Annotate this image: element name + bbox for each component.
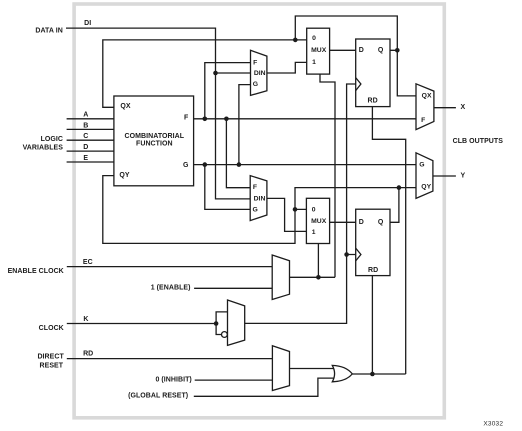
- flip-flop FF2 (QY): [356, 209, 390, 275]
- svg-text:Y: Y: [461, 173, 466, 180]
- svg-text:DATA IN: DATA IN: [35, 27, 62, 34]
- svg-text:QX: QX: [422, 93, 432, 100]
- mux M5 (reset): [272, 346, 289, 391]
- svg-text:D: D: [83, 144, 88, 151]
- svg-text:A: A: [83, 112, 88, 119]
- junction K tap: [214, 321, 219, 326]
- svg-text:MUX: MUX: [311, 218, 327, 225]
- svg-text:ENABLE CLOCK: ENABLE CLOCK: [8, 268, 64, 275]
- svg-text:D: D: [359, 219, 364, 226]
- wire DI net: [66, 28, 250, 199]
- wire (GLOBAL RESET) input: [194, 378, 335, 396]
- svg-text:B: B: [83, 122, 88, 129]
- svg-text:G: G: [183, 162, 189, 169]
- svg-text:E: E: [83, 155, 88, 162]
- junction F to lower mux: [224, 117, 229, 122]
- svg-text:1: 1: [312, 59, 316, 66]
- wire lower data mux output to MUX 1 input: [267, 198, 307, 231]
- junction G to lower mux: [203, 162, 208, 167]
- svg-text:X: X: [461, 104, 466, 111]
- svg-text:DIN: DIN: [254, 70, 266, 77]
- wire EC input: [67, 266, 272, 268]
- mux M2 (F/DIN/G lower): [250, 176, 267, 221]
- svg-text:RESET: RESET: [40, 363, 64, 370]
- junction QY recirculate: [293, 207, 298, 212]
- wire enable-clock select net: [290, 74, 336, 277]
- svg-text:QX: QX: [120, 103, 130, 110]
- svg-text:DI: DI: [84, 20, 91, 27]
- wire clock net: [245, 84, 356, 323]
- wire QX feedback loop: [103, 16, 416, 107]
- svg-text:G: G: [419, 162, 424, 169]
- wire RD input: [67, 358, 273, 360]
- svg-text:FUNCTION: FUNCTION: [136, 140, 173, 147]
- inverter bubble on clock mux: [222, 332, 228, 338]
- wire G net: [194, 85, 416, 210]
- mux M4 (clock polarity): [228, 300, 245, 345]
- wire A input: [67, 118, 114, 120]
- wire QY feedback net: [103, 176, 416, 244]
- wire 0 (INHIBIT) input: [195, 379, 273, 381]
- junction QX recirculate: [293, 38, 298, 43]
- svg-text:0: 0: [312, 206, 316, 213]
- svg-text:K: K: [83, 316, 88, 323]
- combinatorial function block: [114, 96, 194, 186]
- junction QY output: [397, 185, 402, 190]
- wire D input: [67, 150, 114, 152]
- wire C input: [67, 139, 114, 141]
- svg-text:0 (INHIBIT): 0 (INHIBIT): [155, 377, 191, 384]
- junction clock to FF2: [344, 252, 349, 257]
- svg-text:QY: QY: [421, 184, 431, 191]
- wire E input: [67, 161, 114, 163]
- junction DI/DIN upper: [213, 71, 218, 76]
- wire upper MUX output to D: [330, 49, 356, 51]
- svg-text:CLB OUTPUTS: CLB OUTPUTS: [453, 138, 504, 145]
- svg-text:X3032: X3032: [483, 421, 503, 428]
- svg-text:C: C: [83, 133, 88, 140]
- svg-text:MUX: MUX: [311, 47, 327, 54]
- svg-text:COMBINATORIAL: COMBINATORIAL: [125, 133, 185, 140]
- mux M6 (X output QX/F): [416, 84, 434, 130]
- mux MUX lower (0/1 recirculate): [306, 198, 329, 243]
- wire lower MUX output to D: [330, 221, 356, 223]
- svg-text:F: F: [253, 184, 257, 191]
- wire Y output: [433, 175, 456, 177]
- svg-text:Q: Q: [378, 47, 384, 54]
- flip-flop FF1 (QX): [356, 39, 390, 107]
- wire F net: [194, 63, 416, 188]
- junction F to upper mux: [203, 117, 208, 122]
- wire B input: [67, 128, 114, 130]
- svg-text:0: 0: [312, 35, 316, 42]
- mux M7 (Y output G/QY): [416, 153, 433, 199]
- svg-text:CLOCK: CLOCK: [39, 325, 64, 332]
- OR gate G1 (reset or global reset): [332, 365, 352, 381]
- svg-text:RD: RD: [368, 267, 378, 274]
- mux M1 (F/DIN/G upper): [251, 50, 267, 95]
- svg-text:Q: Q: [378, 219, 384, 226]
- wire reset net: [352, 107, 405, 374]
- svg-text:D: D: [359, 47, 364, 54]
- wire reset mux output to OR gate: [290, 368, 335, 370]
- mux MUX upper (0/1 recirculate): [307, 28, 330, 74]
- svg-text:DIRECT: DIRECT: [37, 354, 64, 361]
- svg-text:(GLOBAL RESET): (GLOBAL RESET): [128, 393, 188, 400]
- junction G to upper mux: [237, 162, 242, 167]
- svg-text:LOGIC: LOGIC: [41, 136, 63, 143]
- svg-text:1: 1: [312, 229, 316, 236]
- svg-text:F: F: [184, 115, 189, 122]
- mux M3 (enable clock): [272, 255, 289, 300]
- junction reset to FF2: [370, 372, 375, 377]
- junction enable select: [316, 275, 321, 280]
- svg-text:QY: QY: [119, 172, 129, 179]
- svg-text:EC: EC: [83, 259, 93, 266]
- junction QX output: [395, 48, 400, 53]
- svg-text:1 (ENABLE): 1 (ENABLE): [151, 284, 191, 291]
- wire 1 (ENABLE) input: [194, 287, 272, 289]
- svg-text:G: G: [253, 81, 258, 88]
- svg-text:F: F: [421, 117, 425, 124]
- svg-text:VARIABLES: VARIABLES: [23, 145, 64, 152]
- wire K input with inverter tap: [67, 312, 228, 335]
- svg-text:RD: RD: [83, 351, 93, 358]
- wire X output: [434, 107, 456, 109]
- svg-text:G: G: [253, 206, 258, 213]
- svg-text:F: F: [253, 59, 257, 66]
- wire upper data mux output to MUX 1 input: [267, 62, 307, 73]
- svg-text:RD: RD: [367, 98, 377, 105]
- svg-text:DIN: DIN: [254, 196, 266, 203]
